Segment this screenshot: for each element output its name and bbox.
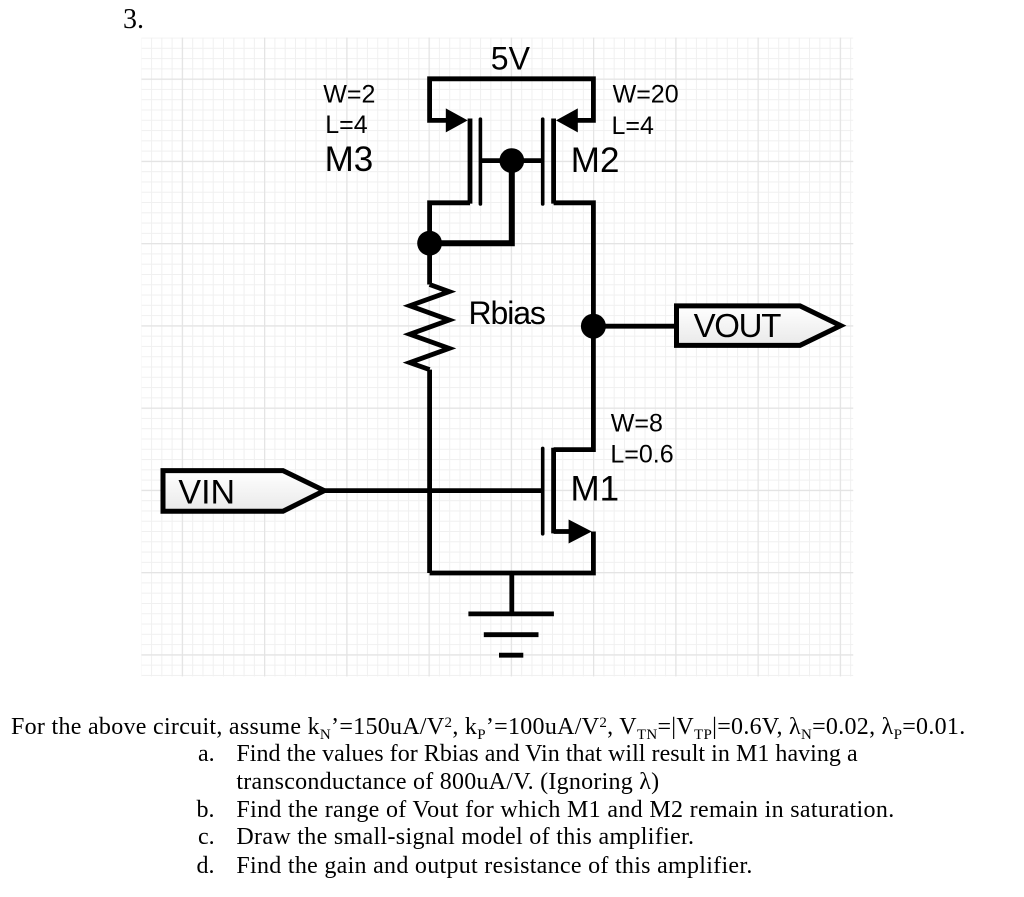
svg-text:L=0.6: L=0.6 bbox=[610, 441, 673, 469]
wire M3 drain to Rbias top bbox=[430, 203, 470, 285]
svg-text:W=2: W=2 bbox=[323, 80, 375, 108]
wire gate-drain tie bbox=[430, 161, 512, 244]
transistor M3 bbox=[446, 108, 481, 204]
svg-text:M2: M2 bbox=[571, 141, 620, 180]
node dot M3 drain bbox=[417, 231, 442, 256]
svg-text:L=4: L=4 bbox=[612, 112, 655, 140]
svg-text:VOUT: VOUT bbox=[694, 307, 782, 344]
wire 5V top rail with drops to M3 and M2 sources bbox=[430, 79, 594, 121]
resistor Rbias bbox=[410, 285, 449, 370]
wire M2 drain down through VOUT node to M1 drain lead bbox=[554, 203, 594, 450]
svg-text:5V: 5V bbox=[491, 40, 531, 76]
svg-text:VIN: VIN bbox=[178, 474, 235, 512]
problem number bbox=[123, 8, 144, 32]
svg-text:Rbias: Rbias bbox=[469, 295, 545, 331]
svg-text:W=8: W=8 bbox=[611, 410, 663, 438]
node dot VOUT bbox=[581, 314, 606, 339]
wire M1 source lead bbox=[554, 529, 569, 534]
wire VOUT node to flag bbox=[593, 324, 676, 329]
problem statement bbox=[11, 715, 966, 739]
node dot gate bus bbox=[499, 148, 524, 173]
ground bbox=[509, 573, 514, 614]
svg-text:L=4: L=4 bbox=[325, 111, 368, 139]
grid background bbox=[141, 38, 853, 677]
svg-text:M1: M1 bbox=[571, 470, 620, 509]
wire VIN to M1 gate bbox=[324, 488, 542, 493]
svg-text:M3: M3 bbox=[325, 140, 374, 179]
wire bottom rail to M1 source bbox=[430, 532, 594, 574]
flag VOUT bbox=[677, 306, 841, 346]
wire gate bus M3 gate to M2 gate bbox=[480, 158, 542, 163]
transistor M1 bbox=[543, 448, 592, 544]
wire Rbias bottom to ground rail bbox=[427, 370, 432, 573]
flag VIN bbox=[163, 471, 324, 512]
svg-text:W=20: W=20 bbox=[613, 81, 679, 109]
transistor M2 bbox=[543, 108, 578, 204]
